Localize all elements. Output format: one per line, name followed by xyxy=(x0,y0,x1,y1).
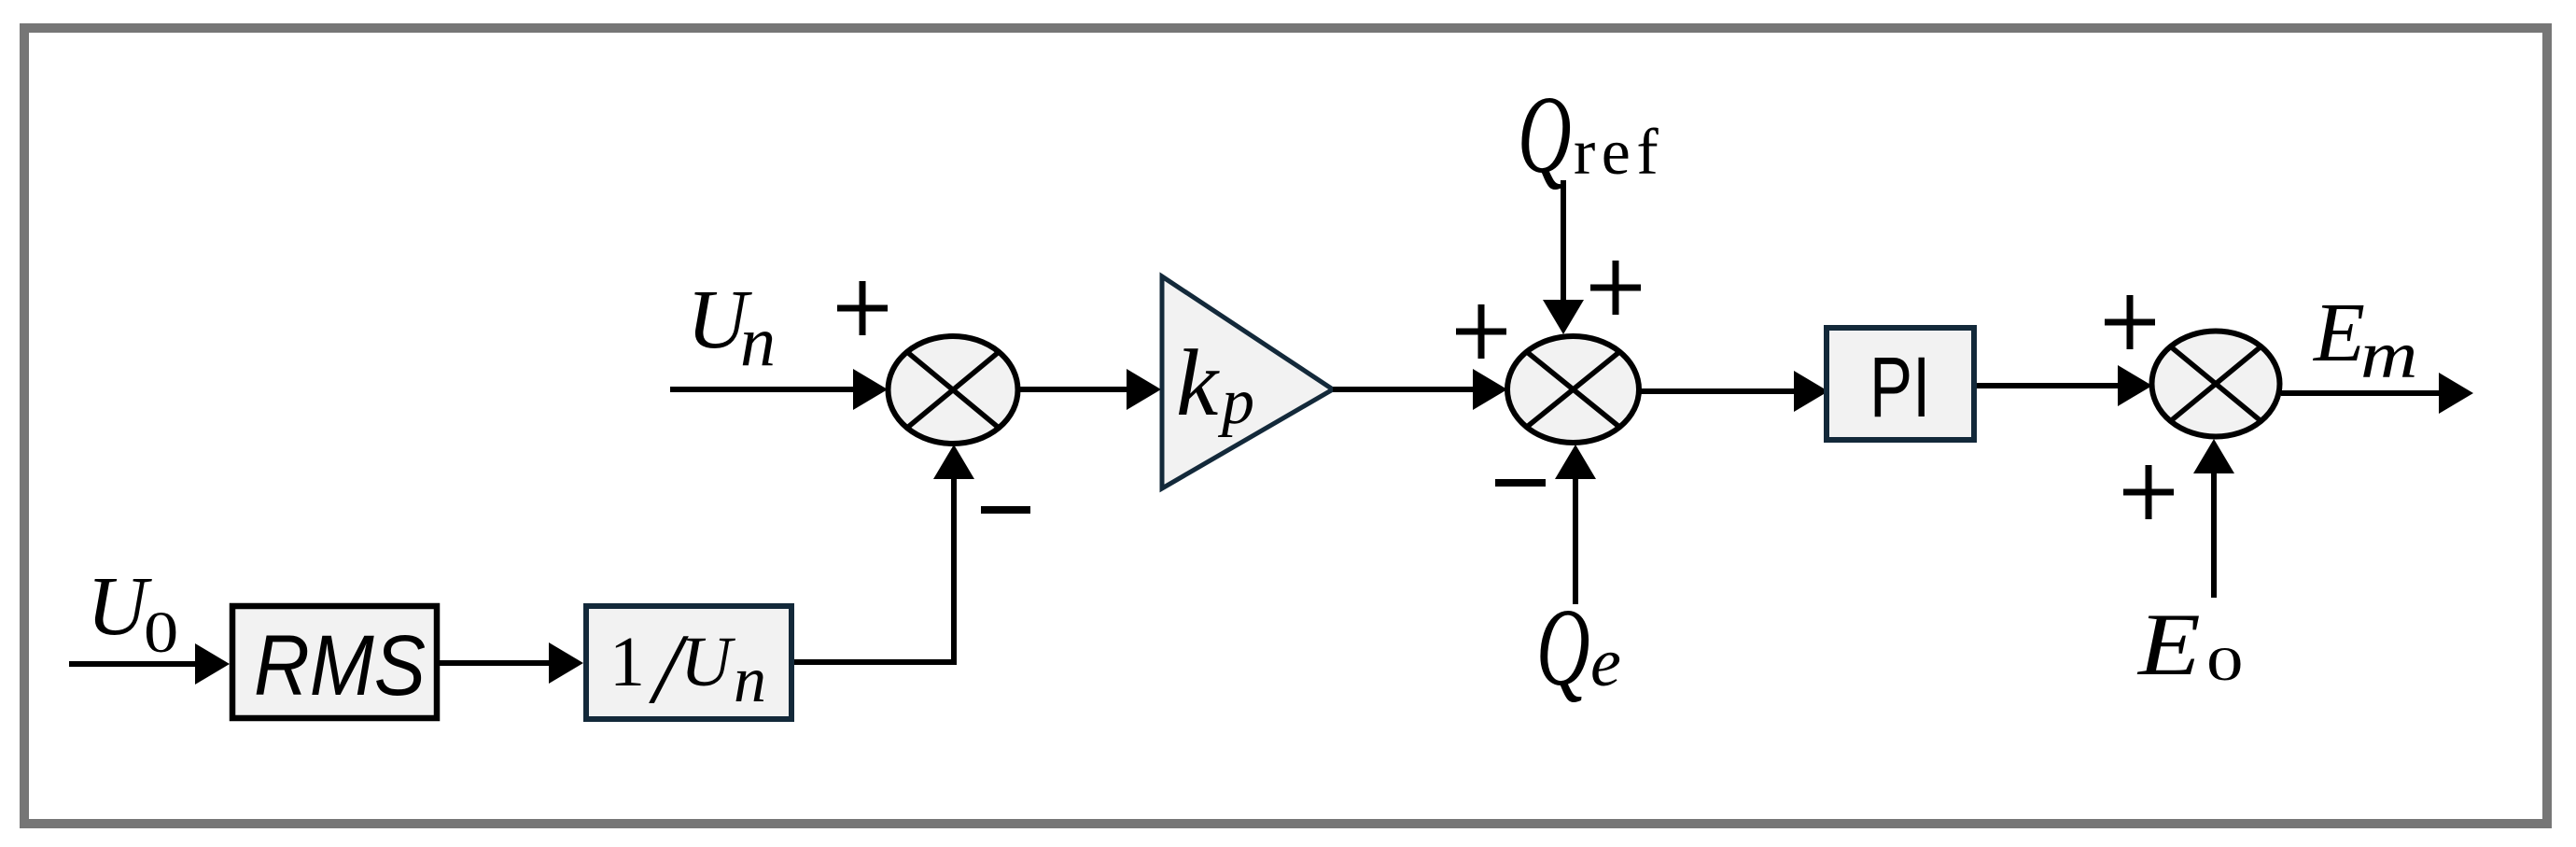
svg-text:k: k xyxy=(1176,331,1220,436)
node Qe label xyxy=(1536,586,1621,709)
wire arrowhead into S1 xyxy=(853,369,888,410)
block 1/Un xyxy=(586,606,791,725)
wire arrowhead into S3 xyxy=(2118,365,2152,406)
wire arrowhead up into S3 xyxy=(2193,439,2234,473)
wire arrowhead into kp xyxy=(1127,369,1161,410)
wire arrowhead into 1/Un xyxy=(549,642,583,684)
svg-text:n: n xyxy=(734,644,766,716)
svg-text:0: 0 xyxy=(144,600,178,665)
summing junction S3 xyxy=(2152,332,2280,437)
wire RMS to 1/Un xyxy=(440,660,553,666)
svg-text:m: m xyxy=(2360,318,2417,393)
wire arrowhead into S2 xyxy=(1473,369,1507,410)
svg-text:ref: ref xyxy=(1574,117,1664,189)
node Qref label xyxy=(1518,73,1664,196)
gain triangle kp xyxy=(1162,276,1333,488)
svg-text:U: U xyxy=(87,560,152,653)
plus sign at S1 left input xyxy=(837,281,888,335)
wire U0 input xyxy=(69,661,200,667)
block RMS xyxy=(232,606,437,718)
node E0 label xyxy=(2136,596,2244,694)
svg-text:n: n xyxy=(740,303,776,381)
svg-text:Q: Q xyxy=(1518,73,1572,196)
svg-text:RMS: RMS xyxy=(254,618,426,713)
plus sign at S2 top input xyxy=(1590,261,1641,315)
minus sign at S1 lower input xyxy=(981,506,1030,514)
summing junction S1 xyxy=(889,336,1018,444)
block PI xyxy=(1827,328,1974,440)
wire 1/Un output, right then up to summing junction S1 xyxy=(794,472,954,662)
wire S2 to PI xyxy=(1639,388,1799,394)
wire PI to summing junction S3 xyxy=(1977,383,2122,388)
wire arrowhead up into S1 xyxy=(933,445,974,479)
node Un label xyxy=(687,274,776,381)
wire E0 input up into S3 xyxy=(2211,469,2217,598)
wire arrowhead output xyxy=(2439,373,2473,414)
svg-text:Q: Q xyxy=(1536,586,1590,709)
wire arrowhead into PI xyxy=(1794,371,1828,412)
summing junction S2 xyxy=(1507,336,1639,443)
svg-text:1: 1 xyxy=(609,623,645,701)
node U0 label xyxy=(87,560,178,665)
svg-text:PI: PI xyxy=(1869,339,1930,435)
wire arrowhead down into S2 xyxy=(1543,300,1584,334)
wire Qref input down into S2 xyxy=(1561,180,1566,305)
wire arrowhead up into S2 xyxy=(1555,445,1596,479)
svg-text:E: E xyxy=(2136,596,2201,694)
plus sign at S2 left input xyxy=(1456,304,1506,359)
plus sign at S3 bottom input xyxy=(2123,465,2174,519)
plus sign at S3 left input xyxy=(2105,295,2155,349)
wire Qe input up into S2 xyxy=(1573,473,1578,604)
svg-text:e: e xyxy=(1590,625,1621,701)
minus sign at S2 bottom input xyxy=(1495,479,1546,487)
svg-text:p: p xyxy=(1217,366,1254,438)
svg-text:E: E xyxy=(2312,287,2365,379)
wire S3 output Em xyxy=(2281,390,2443,396)
wire arrowhead into RMS xyxy=(195,643,230,685)
svg-text:U: U xyxy=(680,623,735,701)
node Em label xyxy=(2312,287,2417,392)
wire S1 to gain kp xyxy=(1017,387,1131,392)
svg-text:0: 0 xyxy=(2206,639,2244,691)
wire Un input xyxy=(670,387,858,392)
wire kp to summing junction S2 xyxy=(1333,387,1477,392)
